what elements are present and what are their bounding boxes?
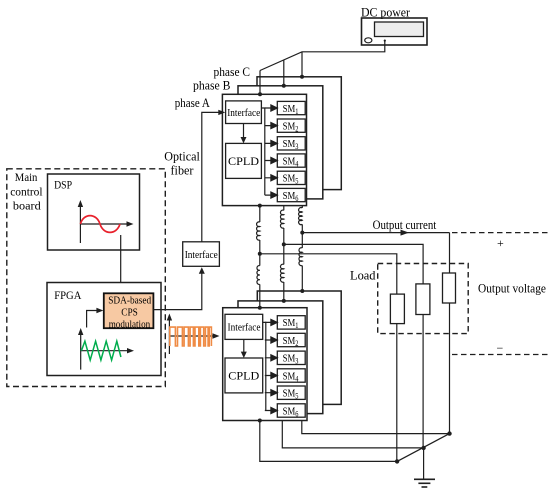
arrow carrier to SDA box xyxy=(87,311,99,328)
node converter 2 phase A top xyxy=(258,306,262,310)
wire output current down through load R3 xyxy=(449,233,451,273)
wire converter 2 phase B to ground bus xyxy=(282,421,423,448)
svg-text:Interface: Interface xyxy=(228,322,261,334)
inductor leg B lower xyxy=(280,264,283,282)
DSP red sine wave xyxy=(80,216,120,233)
node converter 2 bottom junction xyxy=(258,419,262,423)
orange PWM pulse train xyxy=(170,327,212,346)
converter 2 phase A box xyxy=(223,308,307,421)
svg-text:Output voltage: Output voltage xyxy=(478,281,546,296)
node junction on phase A top xyxy=(258,92,262,96)
arrow interface to CPLD converter 1 xyxy=(243,124,245,140)
svg-text:fiber: fiber xyxy=(171,164,195,178)
svg-text:phase B: phase B xyxy=(193,79,231,93)
converter 1 phase A box xyxy=(222,94,306,205)
svg-text:DSP: DSP xyxy=(54,180,72,192)
wire below R2 xyxy=(422,315,424,448)
converter 1 phase C box xyxy=(257,77,341,190)
svg-text:SDA-based: SDA-based xyxy=(108,295,151,307)
wire phase A output to load R1 xyxy=(260,254,397,294)
FPGA box xyxy=(47,283,161,376)
svg-text:Load: Load xyxy=(350,268,376,283)
wire DSP to SDA modulation xyxy=(120,235,122,289)
converter 2 interface box xyxy=(225,314,263,339)
svg-text:Output current: Output current xyxy=(373,217,437,232)
wire converter 2 phase A to ground bus xyxy=(260,421,397,462)
svg-text:CPLD: CPLD xyxy=(228,154,259,168)
svg-text:Optical: Optical xyxy=(164,150,200,164)
converter 1 SM1 box xyxy=(277,101,305,114)
svg-text:Interface: Interface xyxy=(185,249,218,261)
svg-text:Interface: Interface xyxy=(227,107,260,119)
resistor R3 xyxy=(443,273,456,303)
converter 2 SM1 box xyxy=(277,316,305,329)
wire feeder to phase C xyxy=(301,52,303,77)
node bottom junction C xyxy=(447,431,451,435)
DSP box xyxy=(48,174,140,250)
DC power supply box xyxy=(362,18,428,45)
node leg B mid tap xyxy=(282,242,286,246)
inductor leg B upper xyxy=(280,210,283,228)
svg-text:control: control xyxy=(10,186,42,198)
converter 1 SM bus wire xyxy=(261,108,264,195)
svg-text:phase A: phase A xyxy=(175,96,210,110)
node bottom junction B xyxy=(421,446,425,450)
svg-text:−: − xyxy=(497,341,504,355)
arrows bus to SM boxes converter 2 xyxy=(265,319,278,413)
FPGA carrier axes xyxy=(81,332,131,370)
svg-text:CPLD: CPLD xyxy=(228,369,259,383)
node leg C mid tap xyxy=(300,231,304,235)
converter 2 phase C box xyxy=(257,291,341,404)
wire diagonal neutral bus xyxy=(397,434,449,462)
DSP axes xyxy=(80,204,130,244)
pulse train axes xyxy=(169,317,215,354)
converter 1 SM2 box xyxy=(277,119,305,132)
node junction on phase C top xyxy=(300,75,304,79)
inductor leg C upper xyxy=(299,208,303,225)
inductor leg A lower xyxy=(257,266,260,285)
SDA-based CPS modulation box xyxy=(104,293,154,328)
arrows bus to SM boxes converter 1 xyxy=(265,105,278,198)
wire optical interface to converter 1 xyxy=(202,112,221,241)
wire to ground xyxy=(423,448,425,479)
converter 2 CPLD box xyxy=(225,358,263,393)
FPGA green triangle carrier wave xyxy=(81,341,121,360)
converter 1 SM3 box xyxy=(277,137,305,150)
wire feeder to phase A xyxy=(259,71,261,95)
node wire attach in DC power box xyxy=(384,40,386,42)
node converter 2 phase B top xyxy=(282,299,286,303)
converter 2 SM6 box xyxy=(277,404,305,417)
svg-text:CPS: CPS xyxy=(121,307,138,319)
wire output current line xyxy=(302,232,449,234)
converter 1 SM4 box xyxy=(277,154,305,167)
Main control board dashed box xyxy=(7,169,166,387)
converter 2 phase B box xyxy=(238,301,323,414)
svg-text:Main: Main xyxy=(15,172,38,184)
converter 1 CPLD box xyxy=(226,143,262,178)
wire SDA box to interface optical xyxy=(153,271,201,310)
arrowhead output current xyxy=(401,230,410,236)
ground symbol xyxy=(414,479,435,487)
wire DC power to phase feeders xyxy=(260,41,385,71)
arrow interface to CPLD converter 2 xyxy=(243,339,245,354)
leg phase C wire and inductors xyxy=(301,206,303,208)
wire feeder to phase B xyxy=(283,60,285,86)
inductor leg C lower xyxy=(299,248,302,266)
inductor leg A upper xyxy=(257,222,260,240)
wire below R3 xyxy=(449,303,451,434)
svg-text:phase C: phase C xyxy=(214,65,251,79)
optical interface box xyxy=(183,242,220,266)
wire below R1 xyxy=(396,324,398,462)
converter 2 SM3 box xyxy=(277,351,305,364)
svg-text:DC power: DC power xyxy=(361,4,411,19)
svg-text:board: board xyxy=(13,201,41,213)
resistor R2 xyxy=(416,284,430,315)
node converter 1 bottom junction xyxy=(258,204,262,208)
leg phase A wire and inductors xyxy=(259,206,261,222)
node leg A mid tap xyxy=(258,252,262,256)
Load dashed box xyxy=(378,264,469,334)
converter 2 SM bus wire xyxy=(263,322,266,410)
leg phase B wire and inductors xyxy=(283,206,285,211)
node converter 2 phase C top xyxy=(300,289,304,293)
converter 1 phase B box xyxy=(238,86,323,199)
converter 2 SM4 box xyxy=(277,369,305,382)
converter 2 SM5 box xyxy=(277,386,305,399)
node junction on phase B top xyxy=(282,84,286,88)
Output voltage dashed plus line xyxy=(452,232,548,234)
svg-text:modulation: modulation xyxy=(109,318,151,330)
wire converter 2 phase C to ground bus xyxy=(302,421,450,434)
converter 1 interface box xyxy=(226,101,262,124)
node bottom junction A xyxy=(395,459,399,463)
converter 1 SM6 box xyxy=(277,188,305,201)
svg-text:+: + xyxy=(497,236,504,250)
svg-text:FPGA: FPGA xyxy=(54,290,82,302)
converter 2 SM2 box xyxy=(277,333,305,346)
Output voltage dashed minus line xyxy=(452,354,548,356)
resistor R1 xyxy=(390,294,404,324)
converter 1 SM5 box xyxy=(277,171,305,184)
wire phase B output to load R2 xyxy=(284,244,423,284)
